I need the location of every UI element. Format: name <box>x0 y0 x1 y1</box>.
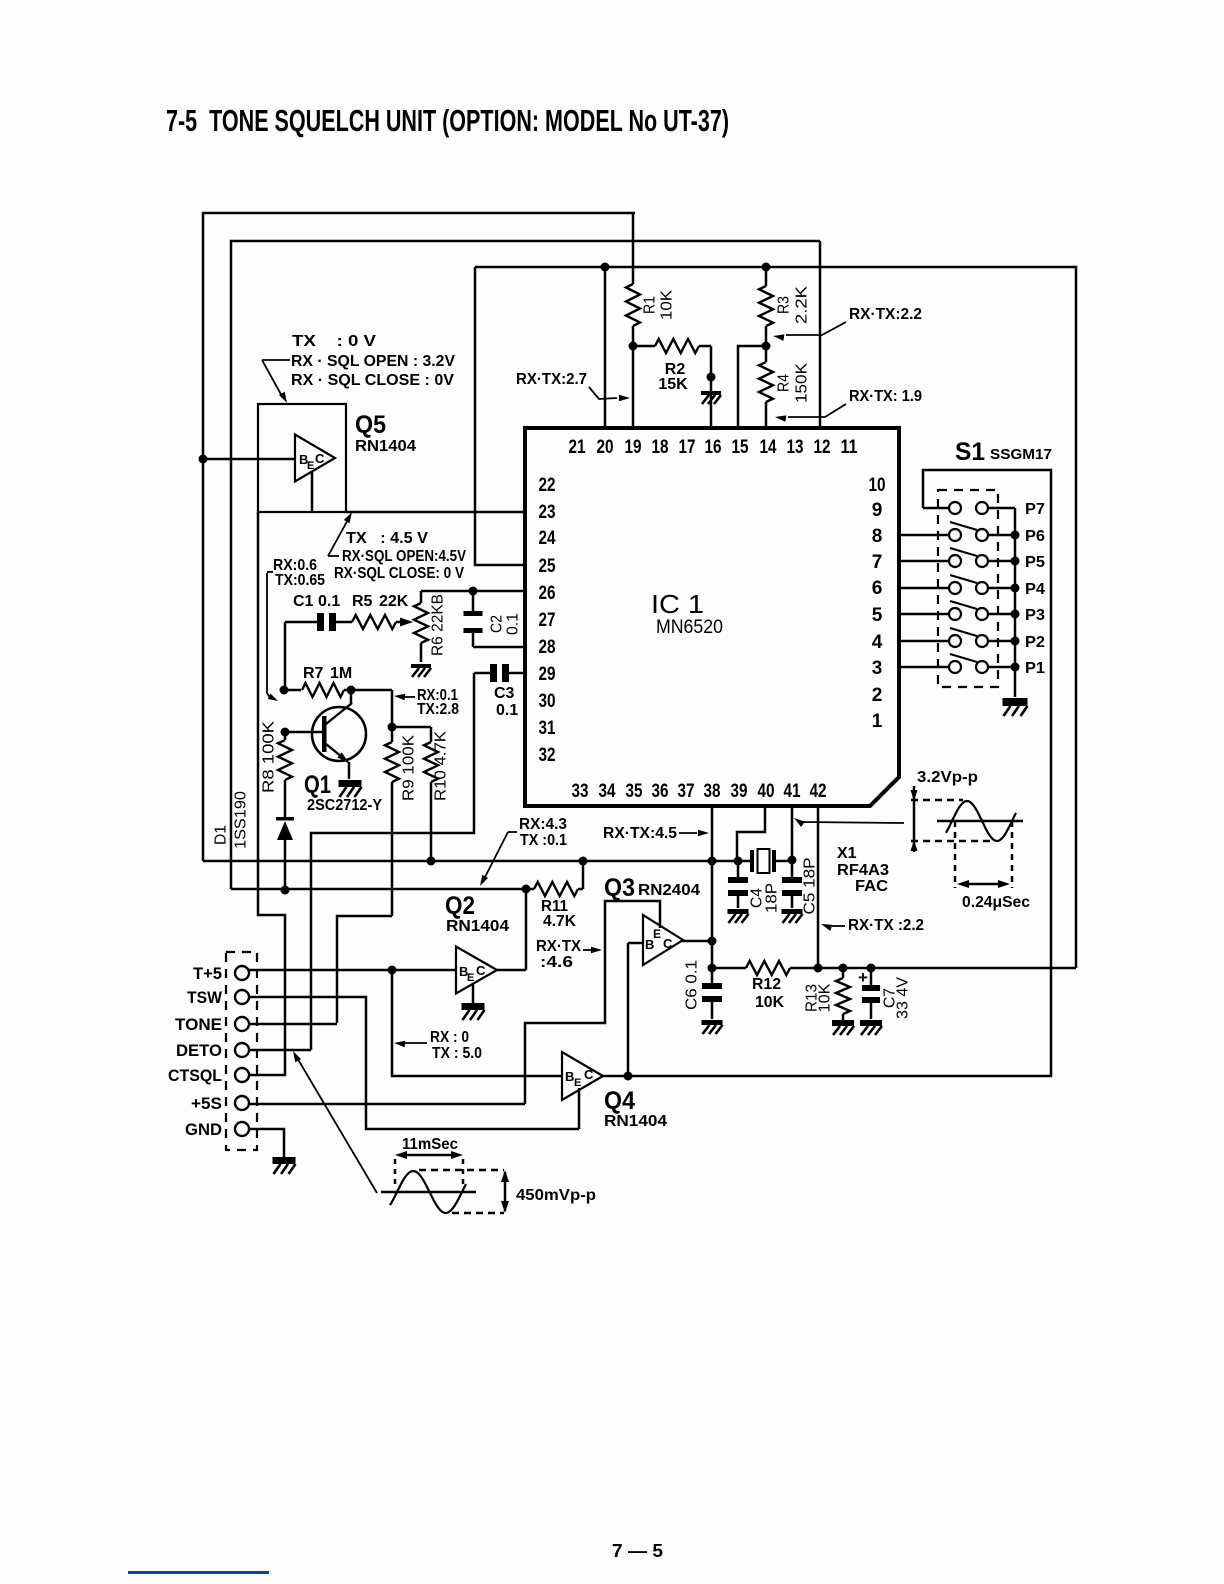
label Q1 2SC2712-Y <box>307 797 382 814</box>
svg-text:10: 10 <box>869 475 886 496</box>
wire pin23 from Q5 box <box>346 511 526 514</box>
transistor Q3 <box>643 915 683 965</box>
svg-text:E: E <box>574 1077 581 1089</box>
svg-text:28: 28 <box>539 637 556 658</box>
svg-text:B: B <box>645 937 654 952</box>
leader RX-TX 2.7 <box>589 387 630 401</box>
label D1 1SS190 <box>233 791 250 849</box>
svg-text:27: 27 <box>539 610 556 631</box>
node Q1 base tap <box>281 728 290 737</box>
label Q3 RN2404 <box>638 882 700 899</box>
svg-text:C3: C3 <box>494 685 515 702</box>
leader RX:0.6 <box>267 572 278 701</box>
label C7 plus <box>858 968 868 987</box>
label RX:0.1 TX:2.8 <box>417 687 459 718</box>
wire S1 ground bus <box>1014 508 1017 697</box>
label S1 <box>955 438 1052 466</box>
label C6 <box>684 960 701 1010</box>
svg-text:11: 11 <box>841 437 858 458</box>
wire C3 to DETO <box>311 673 474 1050</box>
svg-text:0.1: 0.1 <box>505 613 522 635</box>
wire TSW path <box>249 997 579 1129</box>
wire DETO stub <box>249 1049 311 1052</box>
label 11mSec <box>402 1136 458 1153</box>
dimension 3.2Vpp <box>911 786 918 852</box>
diode D1 <box>276 817 294 890</box>
labels P7-P1 <box>1025 501 1045 677</box>
leader DETO to waveform <box>293 1051 377 1193</box>
dashed level bottom <box>911 840 994 843</box>
svg-text:33 4V: 33 4V <box>895 977 912 1019</box>
label Q4 <box>604 1087 635 1115</box>
svg-text:RX·TX:2.2: RX·TX:2.2 <box>849 306 922 323</box>
svg-text:31: 31 <box>539 718 556 739</box>
switch S1 arms <box>950 522 977 662</box>
wire TONE stub <box>249 1023 337 1026</box>
svg-text:26: 26 <box>539 583 556 604</box>
svg-text:22: 22 <box>539 475 556 496</box>
leader RX-TX 2.2 lower <box>821 924 845 931</box>
wire bus crystal net y861 <box>203 860 792 863</box>
page number <box>612 1541 663 1561</box>
sine wave 11mS <box>390 1171 466 1213</box>
svg-text:450mVp-p: 450mVp-p <box>516 1187 596 1204</box>
svg-text:R5: R5 <box>352 593 373 610</box>
label RX-TX 4.6 <box>536 938 581 971</box>
dashed drop left <box>954 821 957 888</box>
svg-text:X1: X1 <box>837 845 857 862</box>
node pin42 to row <box>814 964 823 973</box>
svg-text:17: 17 <box>679 437 696 458</box>
wire pin40 jog <box>737 806 765 861</box>
svg-text:P1: P1 <box>1025 660 1045 677</box>
svg-text:P7: P7 <box>1025 501 1045 518</box>
label 3.2Vp-p <box>917 769 978 786</box>
svg-text:C: C <box>476 963 486 978</box>
svg-text:B: B <box>565 1069 574 1084</box>
svg-text:40: 40 <box>758 781 775 802</box>
svg-text:DETO: DETO <box>176 1041 222 1060</box>
svg-text:19: 19 <box>625 437 642 458</box>
svg-text:TX:2.8: TX:2.8 <box>417 701 459 718</box>
trimmer arrow into R6 <box>400 618 413 627</box>
ground Q2 emitter <box>462 1003 485 1020</box>
wire Q1 emitter <box>348 762 351 779</box>
ground GND pin <box>273 1157 296 1174</box>
node T+5 branch <box>388 966 397 975</box>
label R9 <box>401 735 418 801</box>
wire pin42 riser <box>817 806 820 968</box>
svg-text:11mSec: 11mSec <box>402 1136 458 1153</box>
svg-text:TX:0.65: TX:0.65 <box>275 572 325 589</box>
svg-text:TX :0.1: TX :0.1 <box>520 832 567 849</box>
wire pin12 riser <box>819 241 822 428</box>
wire +5S row <box>249 1103 525 1106</box>
ground below C6 <box>702 1020 723 1034</box>
svg-text:13: 13 <box>787 437 804 458</box>
node R3/R4 junction <box>762 342 771 351</box>
node C4/crystal junction <box>734 857 743 866</box>
wire C1 left drop <box>284 622 287 690</box>
svg-text:23: 23 <box>539 502 556 523</box>
dashed level 11mS top <box>419 1169 504 1172</box>
svg-text:2SC2712-Y: 2SC2712-Y <box>307 797 382 814</box>
svg-text:P5: P5 <box>1025 554 1045 571</box>
ground below R6 <box>411 664 431 677</box>
label Q1 <box>304 771 331 799</box>
svg-text:0.1: 0.1 <box>496 702 518 719</box>
svg-text:24: 24 <box>539 528 556 549</box>
svg-text:RX·SQL OPEN:4.5V: RX·SQL OPEN:4.5V <box>342 548 466 565</box>
node C5/crystal junction <box>788 856 797 865</box>
dimension 450mV <box>501 1170 509 1213</box>
node Q5 base tap <box>199 455 208 464</box>
leader RX-TX 2.2 upper <box>773 322 846 341</box>
leader TX 4.5V <box>328 512 352 556</box>
svg-text:42: 42 <box>810 781 827 802</box>
ground below C4 <box>728 909 749 923</box>
svg-text:C2: C2 <box>489 615 506 633</box>
node C6/R12 junction <box>708 964 717 973</box>
wire pin38 riser <box>711 806 714 983</box>
ground S1 <box>1003 698 1028 716</box>
switch S1 contacts <box>949 502 988 673</box>
svg-text::4.6: :4.6 <box>540 954 573 971</box>
svg-text:IC 1: IC 1 <box>651 589 704 619</box>
node Q3 base to Q4 <box>624 1072 633 1081</box>
svg-text:FAC: FAC <box>855 878 888 895</box>
wire S1 box from Q4 <box>603 470 1051 1076</box>
svg-text:Q2: Q2 <box>445 892 475 920</box>
dashed drop 11mS left <box>394 1159 397 1189</box>
wire pin19 riser <box>632 346 635 428</box>
svg-text:C: C <box>584 1067 594 1082</box>
resistor R12 <box>746 961 790 975</box>
resistor R4 <box>759 346 773 428</box>
svg-text:36: 36 <box>652 781 669 802</box>
wire T+5 row <box>249 969 456 972</box>
svg-text:18P: 18P <box>764 883 781 913</box>
leader RX:0 <box>394 1041 427 1047</box>
wire pin25 riser <box>475 267 526 565</box>
svg-text:RX·SQL CLOSE: 0 V: RX·SQL CLOSE: 0 V <box>334 565 464 582</box>
svg-text:TSW: TSW <box>187 988 223 1007</box>
svg-text:3: 3 <box>872 658 883 679</box>
svg-text:Q3: Q3 <box>604 874 635 902</box>
dashed drop 11mS right <box>462 1159 465 1189</box>
crystal X1 <box>750 849 776 873</box>
node R13 top <box>839 964 848 973</box>
svg-text:TONE: TONE <box>175 1015 222 1034</box>
svg-text:14: 14 <box>760 437 777 458</box>
svg-text:RX · SQL OPEN : 3.2V: RX · SQL OPEN : 3.2V <box>291 353 455 370</box>
svg-text:33: 33 <box>572 781 589 802</box>
svg-text:R12: R12 <box>752 976 781 993</box>
capacitor C7 <box>862 968 880 1019</box>
nodes S1 bus <box>1011 531 1020 672</box>
wire Q3 collector <box>682 940 712 943</box>
svg-text:C5 18P: C5 18P <box>802 858 819 915</box>
connector labels <box>168 964 223 1139</box>
svg-text:21: 21 <box>569 437 586 458</box>
capacitor C5 <box>782 860 802 908</box>
node R3 top <box>762 263 771 272</box>
label Q4 RN1404 <box>604 1113 667 1130</box>
wire Q4 base <box>392 970 562 1076</box>
svg-text:RX·TX: 1.9: RX·TX: 1.9 <box>849 388 922 405</box>
svg-text:+5S: +5S <box>191 1094 222 1113</box>
svg-text:5: 5 <box>872 605 883 626</box>
label C1 <box>293 593 340 610</box>
label RX-TX 2.2 lower <box>848 917 924 934</box>
svg-text:2.2K: 2.2K <box>794 286 811 324</box>
label R8 <box>261 721 278 793</box>
switch S1 dashed box <box>938 490 998 687</box>
wire Q1 collector riser <box>351 690 392 727</box>
resistor R11 <box>526 861 583 896</box>
wire pin28 from C2 <box>473 646 526 649</box>
label R2 <box>658 361 688 393</box>
svg-text:RX·TX :2.2: RX·TX :2.2 <box>848 917 924 934</box>
svg-text:RN1404: RN1404 <box>355 438 416 455</box>
svg-text:1: 1 <box>872 711 883 732</box>
label 450mVp-p <box>516 1187 596 1204</box>
svg-text:6: 6 <box>872 578 883 599</box>
svg-text:16: 16 <box>705 437 722 458</box>
svg-text:R9 100K: R9 100K <box>401 735 418 801</box>
svg-text:7-5 TONE SQUELCH UNIT (OPTION: 7-5 TONE SQUELCH UNIT (OPTION: MODEL No … <box>166 103 729 138</box>
transistor Q5 box <box>258 404 346 512</box>
IC1 name <box>651 589 723 638</box>
svg-text:1SS190: 1SS190 <box>233 791 250 849</box>
svg-text:SSGM17: SSGM17 <box>990 446 1052 463</box>
svg-text:Q5: Q5 <box>355 411 386 439</box>
svg-text:TX : 4.5 V: TX : 4.5 V <box>346 530 428 547</box>
label TX 4.5V lines <box>334 530 466 582</box>
svg-text:10K: 10K <box>817 983 834 1012</box>
wire pin26 from R6 <box>421 591 526 603</box>
label R3 <box>776 286 811 324</box>
label Q5 <box>355 411 386 439</box>
wire R9 to TONE <box>337 916 392 1023</box>
svg-text:RX · SQL CLOSE : 0V: RX · SQL CLOSE : 0V <box>291 372 454 389</box>
svg-text:P3: P3 <box>1025 607 1045 624</box>
svg-text:7 — 5: 7 — 5 <box>612 1541 663 1561</box>
sine axis 0.24uS <box>937 820 1023 823</box>
wire frame A (R1 top to crystal bus) <box>203 213 635 861</box>
wire P7 left <box>923 507 949 510</box>
svg-text:4: 4 <box>872 632 883 653</box>
ground Q1 emitter <box>339 780 362 797</box>
resistor R8 <box>278 732 292 819</box>
label C3 <box>494 685 518 719</box>
svg-text:RX·TX:4.5: RX·TX:4.5 <box>603 825 677 842</box>
wire Q2 emitter <box>472 984 475 1003</box>
label C7 <box>882 977 912 1019</box>
svg-text:MN6520: MN6520 <box>656 617 723 638</box>
IC1 top pin numbers 21-11 <box>569 437 858 458</box>
leader RX-TX 4.5 <box>679 830 709 837</box>
node R7 left <box>280 686 289 695</box>
blue margin line <box>128 1571 269 1574</box>
IC U1 MN6520 outline <box>525 428 899 806</box>
resistor R2 <box>633 339 711 353</box>
capacitor C3 <box>474 664 526 682</box>
node Q2 collector junction <box>522 885 531 894</box>
node R10 bus <box>427 857 436 866</box>
svg-text:R3: R3 <box>776 296 793 314</box>
svg-text:22K: 22K <box>379 593 409 610</box>
svg-text:RX·TX: RX·TX <box>536 938 581 955</box>
svg-text:9: 9 <box>872 500 883 521</box>
svg-text:C1: C1 <box>293 593 314 610</box>
node R7 right <box>347 686 356 695</box>
wires IC pins 8-3 to S1 <box>899 535 949 667</box>
svg-text:38: 38 <box>704 781 721 802</box>
svg-text:D1: D1 <box>213 825 230 845</box>
node pin20 junction <box>601 263 610 272</box>
resistor R10 <box>392 727 438 861</box>
svg-text:7: 7 <box>872 552 883 573</box>
wire bus D1/R11 net y889 <box>231 888 525 891</box>
wires S1 right contacts <box>988 508 1015 667</box>
IC1 bottom pin numbers 33-42 <box>572 781 827 802</box>
svg-text:R4: R4 <box>776 374 793 392</box>
node C7 top <box>867 964 876 973</box>
svg-text:37: 37 <box>678 781 695 802</box>
dashed drop right <box>1011 821 1014 888</box>
transistor Q5 <box>295 435 335 482</box>
wire GND pin <box>249 1129 284 1157</box>
svg-text:Q4: Q4 <box>604 1087 635 1115</box>
dimension 0.24uS arrows <box>957 880 1010 888</box>
label C4 <box>749 883 781 913</box>
svg-text:P4: P4 <box>1025 581 1045 598</box>
label D1 <box>213 825 230 845</box>
node pin38 bus <box>708 857 717 866</box>
label Q3 <box>604 874 635 902</box>
svg-text:E: E <box>307 460 314 472</box>
svg-text:CTSQL: CTSQL <box>168 1066 222 1085</box>
svg-text:0.1: 0.1 <box>318 593 340 610</box>
dashed level top <box>911 799 963 802</box>
node Q3 collector to pin38 <box>708 937 717 946</box>
label R4 <box>776 363 811 403</box>
label R5 22K <box>352 593 409 610</box>
leader RX-TX 4.6 <box>583 947 602 954</box>
node C2 top <box>469 587 478 596</box>
svg-text:R10 4.7K: R10 4.7K <box>433 731 450 801</box>
svg-text:2: 2 <box>872 685 883 706</box>
label RX:4.3 TX:0.1 <box>519 816 567 849</box>
svg-text:12: 12 <box>814 437 831 458</box>
node R2 ground junction <box>707 373 716 382</box>
label R7 1M <box>303 665 352 682</box>
leader RX-TX 1.9 <box>775 404 846 422</box>
wire pin41 riser <box>791 806 794 860</box>
svg-text:+: + <box>858 968 868 987</box>
svg-text:Q1: Q1 <box>304 771 331 799</box>
wire Q3 emitter path <box>525 901 660 1104</box>
ground below C5 <box>782 909 803 923</box>
svg-text:18: 18 <box>652 437 669 458</box>
label R6 <box>430 594 447 656</box>
svg-text:RX:4.3: RX:4.3 <box>519 816 567 833</box>
label R1 <box>642 290 676 320</box>
svg-text:RN2404: RN2404 <box>638 882 700 899</box>
node R9/R10 branch <box>388 723 397 732</box>
svg-text:RX·TX:2.7: RX·TX:2.7 <box>516 371 587 388</box>
svg-text:4.7K: 4.7K <box>543 913 576 930</box>
svg-text:C: C <box>663 936 673 951</box>
label RX-TX 1.9 <box>849 388 922 405</box>
resistor R6 <box>414 603 428 662</box>
svg-text:C: C <box>315 451 325 466</box>
label R12 10K <box>752 976 784 1011</box>
page title <box>166 103 729 138</box>
resistor R5 <box>352 615 408 629</box>
label C5 <box>802 858 819 915</box>
svg-text:T+5: T+5 <box>193 964 222 983</box>
label RX-TX 2.7 <box>516 371 587 388</box>
wire pin20 riser <box>604 267 607 428</box>
svg-text:R1: R1 <box>642 296 659 314</box>
svg-text:15K: 15K <box>658 376 688 393</box>
svg-text:25: 25 <box>539 556 556 577</box>
label Q2 RN1404 <box>446 918 509 935</box>
sine wave 0.24uS <box>946 801 1016 841</box>
svg-text:0.24μSec: 0.24μSec <box>962 894 1030 911</box>
IC1 right pin numbers 10-1 <box>869 475 886 732</box>
svg-text:RX : 0: RX : 0 <box>430 1029 469 1046</box>
wire Q5 box to CTSQL <box>249 512 285 1075</box>
svg-text:TX : 0 V: TX : 0 V <box>292 333 376 350</box>
resistor R13 <box>836 968 850 1020</box>
label R13 <box>804 983 834 1012</box>
resistor R1 <box>626 213 640 346</box>
svg-text:32: 32 <box>539 745 556 766</box>
leader RX:0.1 <box>394 694 415 700</box>
wire Q5 emitter <box>311 471 314 512</box>
svg-text:S1: S1 <box>955 438 985 466</box>
label R10 <box>433 731 450 801</box>
label RX:0 TX:5.0 <box>430 1029 482 1062</box>
ground at pin16 <box>701 391 721 404</box>
node D1 to bus <box>281 886 290 895</box>
leader to pin41 <box>794 818 904 827</box>
svg-text:RN1404: RN1404 <box>604 1113 667 1130</box>
svg-text:RF4A3: RF4A3 <box>837 862 889 879</box>
wire pin16 riser <box>710 346 713 428</box>
label C2 <box>489 613 522 635</box>
label 0.24uSec <box>962 894 1030 911</box>
svg-text:10K: 10K <box>659 290 676 320</box>
label RX-TX 2.2 upper <box>849 306 922 323</box>
svg-text:30: 30 <box>539 691 556 712</box>
svg-text:GND: GND <box>185 1120 222 1139</box>
label Q2 <box>445 892 475 920</box>
svg-text:C6 0.1: C6 0.1 <box>684 960 701 1010</box>
svg-text:1M: 1M <box>330 665 352 682</box>
connector dashed box <box>226 952 257 1150</box>
capacitor C2 <box>464 591 483 647</box>
label RX-TX 4.5 <box>603 825 677 842</box>
ground below C7 <box>860 1020 882 1035</box>
svg-text:RN1404: RN1404 <box>446 918 509 935</box>
capacitor C1 <box>285 613 352 631</box>
svg-text:R7: R7 <box>303 665 324 682</box>
svg-text:P2: P2 <box>1025 634 1045 651</box>
